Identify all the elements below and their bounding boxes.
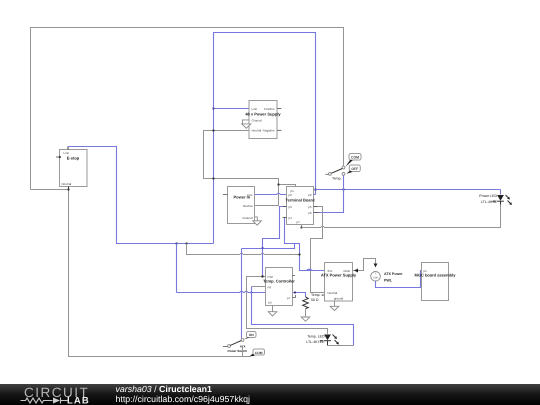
- svg-text:Temp.: Temp.: [332, 177, 342, 181]
- svg-text:Temp. LED: Temp. LED: [307, 335, 325, 339]
- wire: TB p5 gray to ATX PS neutral: [311, 207, 325, 293]
- svg-text:GND: GND: [343, 269, 351, 273]
- svg-text:Neutral: Neutral: [252, 129, 262, 133]
- svg-text:Line: Line: [252, 107, 258, 111]
- svg-text:P9: P9: [268, 286, 272, 290]
- wire: E-stop bottom to switch com long run: [31, 190, 251, 357]
- wire: TB p4 blue to ATX supply 24v: [285, 218, 325, 271]
- svg-text:24v: 24v: [328, 269, 333, 273]
- svg-text:PWL: PWL: [384, 279, 393, 283]
- svg-text:p6: p6: [308, 211, 312, 215]
- svg-text:ATX Power Supply: ATX Power Supply: [321, 273, 357, 278]
- component Temp. Controller: [263, 268, 295, 306]
- svg-text:p3: p3: [289, 205, 293, 209]
- svg-text:Ground: Ground: [242, 216, 252, 220]
- svg-text:ATX Power: ATX Power: [384, 272, 403, 276]
- component ATX Power Supply: [321, 263, 357, 302]
- wire: temp LED cathode to blue loop: [328, 345, 354, 347]
- ground: resistor ground: [305, 309, 307, 317]
- svg-text:p7: p7: [287, 296, 291, 300]
- wire: TB p3 blue to P10 net: [263, 207, 287, 277]
- svg-text:http://circuitlab.com/c96j4u95: http://circuitlab.com/c96j4u957kkqj: [116, 394, 251, 404]
- wire: TB p2 right stub up to blue box edge: [314, 194, 316, 196]
- svg-text:COM: COM: [255, 351, 263, 355]
- wire: E-stop line to blue box (blue): [68, 147, 214, 244]
- component Power LED LTL-4HSE: [479, 190, 512, 206]
- svg-text:Neutral: Neutral: [328, 291, 338, 295]
- wire: gray y254 run: [187, 244, 240, 255]
- component ATX Power PWL source: [371, 272, 404, 283]
- wire: resistor feed line y292 (blue): [177, 291, 306, 297]
- wire: TB bottom p7 to power LED return (gray): [301, 225, 303, 228]
- svg-text:p2: p2: [308, 193, 312, 197]
- svg-text:LTL-4KYEE: LTL-4KYEE: [306, 340, 325, 344]
- component resistor temp sensor 50ohm: [303, 293, 333, 309]
- wire: power LED feed line (blue): [316, 189, 501, 191]
- ground: 48V supply ground: [242, 120, 251, 128]
- component Temp LED LTL-4KYEE: [306, 329, 339, 346]
- svg-text:MGC board assembly: MGC board assembly: [415, 273, 457, 278]
- svg-text:Temp. Controller: Temp. Controller: [263, 279, 295, 284]
- wire: 48V neutral gray net: [204, 131, 279, 206]
- component E-stop: [56, 147, 87, 190]
- wire: down x241 to ATX switch: [241, 249, 243, 339]
- svg-text:E-stop: E-stop: [67, 156, 80, 161]
- ground: temp controller ground: [268, 306, 277, 317]
- svg-text:COM: COM: [351, 156, 359, 160]
- svg-text:ground: ground: [334, 297, 344, 301]
- wire: stub to 48V Line pin: [214, 108, 250, 110]
- svg-text:Neutral: Neutral: [62, 182, 72, 186]
- wire: ATX supply GND to PWL source: [353, 259, 376, 271]
- node: junction at 278,184: [277, 183, 279, 185]
- ground: ATX supply ground: [330, 301, 339, 311]
- svg-text:Line: Line: [64, 151, 70, 155]
- svg-text:p7: p7: [297, 220, 301, 224]
- svg-text:P10: P10: [268, 275, 274, 279]
- svg-text:Terminal Board: Terminal Board: [285, 198, 315, 203]
- wire: Power In line to terminal board p2 (blue, hop at 278): [255, 193, 287, 194]
- svg-text:50 Ω: 50 Ω: [311, 298, 319, 302]
- wire: temp switch off down to y189 and to TB p6: [314, 176, 344, 213]
- footer bar: [0, 384, 540, 405]
- svg-text:Positive: Positive: [264, 107, 275, 111]
- node: junction at 186,243: [185, 242, 187, 244]
- wire: P9 gray then blue loop to temp LED cathode: [252, 286, 266, 288]
- svg-text:LAB: LAB: [67, 396, 90, 405]
- wire: E-stop net branch down at 176: [175, 242, 177, 244]
- svg-text:Power LED: Power LED: [479, 194, 497, 198]
- node: junction temp switch at 343.5,189: [342, 188, 344, 190]
- wire: y248 cross run: [242, 244, 300, 249]
- node: junction gray y254 on blue: [298, 253, 300, 255]
- ground: Power In ground: [253, 217, 262, 225]
- node: junction at E-stop neutral: [67, 188, 69, 190]
- component MGC board assembly: [415, 263, 457, 301]
- wire: blue supply rectangle: [214, 33, 316, 244]
- svg-text:p1: p1: [424, 269, 428, 273]
- svg-text:+: +: [375, 272, 377, 276]
- svg-text:ON: ON: [249, 333, 255, 337]
- svg-text:p2: p2: [289, 193, 293, 197]
- svg-text:varsha03 / Ciructclean1: varsha03 / Ciructclean1: [116, 384, 212, 394]
- wire: PWL to MGC board (blue): [376, 271, 422, 288]
- wire: P10 gray to temp LED: [247, 277, 326, 329]
- node: junction blue x213 over neutral: [212, 129, 214, 131]
- component ATX power switch SPDT: [223, 332, 265, 357]
- node: junction blue x213 at 48V line: [212, 107, 214, 109]
- svg-text:Negative: Negative: [263, 129, 275, 133]
- svg-text:LTL-4HSE: LTL-4HSE: [481, 200, 498, 204]
- wire: top outer gray rectangle net (E-stop neutral / temp switch com): [31, 28, 344, 190]
- wire: branch to terminal board p1: [279, 185, 296, 187]
- node: junction at 315,189: [314, 188, 316, 190]
- svg-text:Power Switch: Power Switch: [227, 349, 247, 353]
- svg-text:Neutral: Neutral: [243, 204, 253, 208]
- svg-text:p5: p5: [308, 205, 312, 209]
- svg-text:48 v Power Supply: 48 v Power Supply: [245, 112, 281, 117]
- node: junction blue x213 at y178: [212, 177, 214, 179]
- svg-text:OFF: OFF: [351, 167, 358, 171]
- component Terminal Board: [285, 187, 315, 225]
- component Power In: [223, 187, 255, 224]
- component temp switch SPDT: [326, 28, 362, 181]
- component 48 v Power Supply: [245, 101, 281, 139]
- svg-text:p5: p5: [269, 301, 273, 305]
- svg-text:p4: p4: [289, 216, 293, 220]
- svg-text:Ground: Ground: [252, 119, 262, 123]
- svg-text:Line: Line: [247, 193, 253, 197]
